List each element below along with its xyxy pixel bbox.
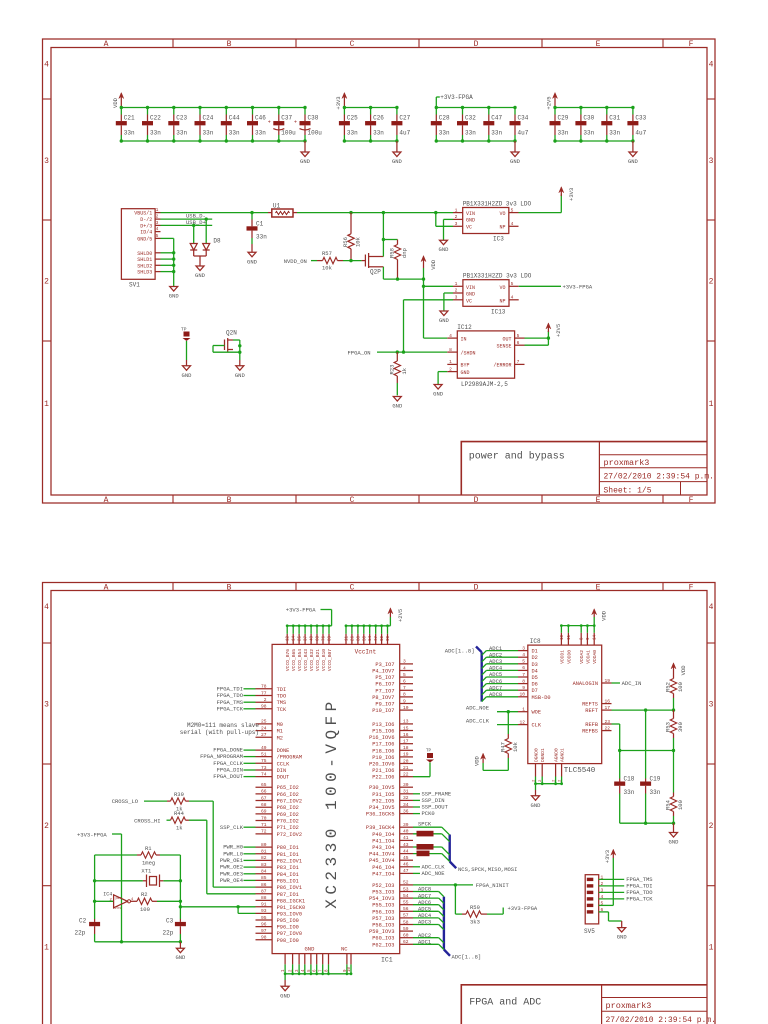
svg-text:ADC_NOE: ADC_NOE [466, 705, 490, 712]
svg-text:22: 22 [403, 772, 409, 778]
svg-text:66: 66 [261, 789, 267, 795]
wire CROSS_LO to R39 [144, 800, 167, 802]
svg-text:R52: R52 [665, 682, 672, 692]
wire CROSS_HI to R44 [167, 819, 171, 821]
svg-text:33n: 33n [624, 789, 635, 796]
svg-text:25: 25 [261, 719, 267, 725]
ground below SV5 [618, 928, 626, 933]
frame column ticks top [172, 583, 174, 591]
svg-text:D6: D6 [532, 682, 538, 688]
svg-text:P7_IO7: P7_IO7 [375, 688, 394, 694]
power symbol +2V5 for +2V5 bypass bank [546, 93, 558, 110]
IC8 right pins [573, 678, 612, 735]
svg-text:4: 4 [403, 665, 406, 671]
svg-text:33n: 33n [229, 130, 240, 137]
svg-text:68: 68 [261, 802, 267, 808]
svg-text:C44: C44 [229, 115, 240, 122]
svg-text:P4_IOV7: P4_IOV7 [372, 669, 394, 675]
junction at top of C26 [369, 106, 372, 109]
svg-text:P32_IO5: P32_IO5 [372, 798, 394, 804]
svg-text:17: 17 [605, 705, 611, 711]
wire R47 to VDD [483, 763, 508, 770]
svg-text:33n: 33n [176, 130, 187, 137]
inverter IC4 [93, 891, 137, 910]
wire SPCK to bus [413, 821, 450, 836]
svg-text:D7: D7 [532, 688, 538, 694]
capacitor C33 [627, 108, 646, 142]
svg-text:R59: R59 [470, 904, 480, 911]
svg-text:98: 98 [261, 935, 267, 941]
svg-text:ADC_IN: ADC_IN [622, 680, 642, 687]
svg-text:P65_IO2: P65_IO2 [277, 785, 299, 791]
svg-text:XT1: XT1 [141, 867, 152, 874]
svg-text:P53_IO3: P53_IO3 [372, 890, 394, 896]
svg-text:P70_IO2: P70_IO2 [277, 819, 299, 825]
frame row ticks [43, 642, 52, 644]
svg-text:P88_IGCK1: P88_IGCK1 [277, 898, 306, 904]
svg-text:P81_IO1: P81_IO1 [277, 852, 299, 858]
svg-text:C26: C26 [373, 115, 384, 122]
junction at bottom of C24 [198, 139, 201, 142]
svg-text:ADC_NOE: ADC_NOE [422, 870, 446, 877]
svg-text:27/02/2010 2:39:54 p.m.: 27/02/2010 2:39:54 p.m. [606, 1016, 716, 1024]
svg-text:1meg: 1meg [142, 859, 155, 866]
power symbol +3V3-FPGA for +3V3-FPGA bypass bank [436, 94, 473, 108]
svg-text:15: 15 [403, 725, 409, 731]
svg-text:ANALOGIN: ANALOGIN [573, 681, 598, 687]
svg-text:SHLD0: SHLD0 [137, 251, 152, 257]
junction at top of C25 [343, 106, 346, 109]
svg-text:GND: GND [300, 158, 311, 165]
ground below R23 [393, 397, 401, 402]
svg-text:33n: 33n [558, 130, 569, 137]
svg-text:GND: GND [510, 158, 521, 165]
svg-text:P96_IO0: P96_IO0 [277, 925, 299, 931]
power symbol VDD above IC8 [593, 612, 595, 617]
svg-text:C34: C34 [518, 115, 529, 122]
svg-text:VO: VO [499, 211, 505, 217]
capacitor C23 [168, 108, 187, 142]
IC3 pin stubs [453, 207, 519, 227]
svg-text:USB_D+: USB_D+ [186, 219, 206, 226]
svg-text:VCCO_B21: VCCO_B21 [315, 649, 321, 671]
svg-text:C24: C24 [203, 115, 214, 122]
svg-text:10: 10 [403, 705, 409, 711]
svg-text:30: 30 [403, 782, 409, 788]
svg-text:VDD: VDD [601, 610, 608, 621]
resistor R56 [342, 211, 362, 261]
svg-text:49: 49 [261, 745, 267, 751]
wires SV5 JTAG signals [599, 876, 654, 903]
svg-text:2: 2 [455, 214, 458, 220]
svg-text:NVDD_ON: NVDD_ON [284, 258, 307, 265]
svg-text:PB1X331H2ZD 3v3 LDO: PB1X331H2ZD 3v3 LDO [463, 200, 532, 207]
junction at top of C37 [277, 106, 280, 109]
junction at top of C24 [198, 106, 201, 109]
svg-text:B: B [227, 40, 232, 49]
svg-text:31: 31 [403, 789, 409, 795]
svg-text:P43_IO4: P43_IO4 [372, 845, 394, 851]
IC1 right pins [366, 659, 413, 949]
wire NCS to bus [413, 851, 450, 862]
svg-text:14: 14 [594, 634, 598, 640]
regulator IC12 [457, 324, 514, 388]
svg-text:D5: D5 [532, 675, 538, 681]
svg-text:AGND0: AGND0 [554, 748, 560, 762]
svg-text:98: 98 [261, 704, 267, 710]
svg-text:VIN: VIN [466, 211, 475, 217]
svg-text:TMS: TMS [277, 700, 287, 706]
svg-text:IC13: IC13 [491, 309, 506, 316]
svg-text:C46: C46 [255, 115, 266, 122]
svg-text:C1: C1 [256, 221, 264, 228]
wire IC13 VO to +3V3-FPGA label [519, 285, 561, 287]
svg-text:5: 5 [403, 672, 406, 678]
svg-text:P22_IO6: P22_IO6 [372, 775, 394, 781]
svg-text:P59_IOV3: P59_IOV3 [369, 929, 394, 935]
svg-text:E: E [596, 584, 601, 593]
label ADC_NOE at IC8 [466, 705, 518, 714]
svg-text:GND: GND [439, 317, 450, 324]
svg-text:48: 48 [311, 635, 315, 641]
svg-text:P60_IO3: P60_IO3 [372, 936, 394, 942]
svg-text:13: 13 [403, 719, 409, 725]
svg-text:GND: GND [439, 246, 450, 253]
svg-text:P19_IO6: P19_IO6 [372, 755, 394, 761]
svg-text:88: 88 [261, 895, 267, 901]
svg-text:VCCO_B76: VCCO_B76 [285, 649, 291, 671]
svg-text:VDDA0: VDDA0 [592, 650, 598, 664]
ground below Q2N [236, 366, 244, 371]
crystal XT1 [93, 867, 182, 887]
svg-text:VDDD0: VDDD0 [566, 650, 572, 664]
svg-text:R39: R39 [174, 791, 184, 798]
svg-text:serial (with pull-ups): serial (with pull-ups) [180, 729, 259, 736]
svg-text:FPGA_NINIT: FPGA_NINIT [476, 882, 510, 889]
svg-text:GND: GND [617, 934, 628, 941]
svg-text:P52_IO3: P52_IO3 [372, 883, 394, 889]
svg-text:OUT: OUT [502, 336, 511, 342]
svg-text:80: 80 [261, 842, 267, 848]
svg-text:1: 1 [44, 400, 49, 409]
capacitor C1 [247, 213, 268, 253]
IC1 left pins [256, 684, 306, 944]
junction at bottom of C26 [369, 139, 372, 142]
junction at bottom of C46 [251, 139, 254, 142]
svg-text:P97_IOV0: P97_IOV0 [277, 931, 302, 937]
svg-text:1: 1 [455, 281, 458, 287]
svg-text:VCCO_B43: VCCO_B43 [303, 649, 309, 671]
svg-text:9: 9 [403, 698, 406, 704]
junction at top of C29 [553, 106, 556, 109]
svg-text:+3V3: +3V3 [604, 850, 611, 863]
capacitor C47 [483, 108, 502, 142]
junction at top of C28 [435, 106, 438, 109]
svg-text:GND: GND [461, 370, 470, 376]
svg-text:3: 3 [156, 220, 159, 226]
svg-text:19: 19 [403, 752, 409, 758]
junction at bottom of C37 [277, 139, 280, 142]
IC1 top VCCO pins and +3V3-FPGA rail [285, 624, 333, 671]
junction at bottom of C29 [553, 139, 556, 142]
svg-text:R44: R44 [174, 810, 185, 817]
svg-text:ADC[1..8]: ADC[1..8] [445, 647, 475, 654]
svg-text:82: 82 [261, 855, 267, 861]
svg-text:GND: GND [392, 158, 403, 165]
svg-text:VBUS/1: VBUS/1 [134, 211, 152, 217]
junction at bottom of C32 [461, 139, 464, 142]
svg-text:C33: C33 [635, 115, 646, 122]
svg-text:P85_IO1: P85_IO1 [277, 878, 299, 884]
svg-text:33n: 33n [583, 130, 594, 137]
svg-text:NP: NP [499, 224, 505, 230]
svg-text:P10_IO7: P10_IO7 [372, 708, 394, 714]
wire bottom rail of +3V3 bypass bank [344, 140, 397, 142]
ground below IC12 [434, 385, 442, 390]
svg-text:F: F [689, 584, 694, 593]
note about FPGA slave serial mode [180, 722, 260, 736]
svg-text:33n: 33n [150, 130, 161, 137]
svg-text:ADC_CLK: ADC_CLK [466, 718, 490, 725]
svg-text:GND: GND [466, 292, 475, 298]
svg-text:D: D [474, 584, 479, 593]
svg-text:P41_IO4: P41_IO4 [372, 838, 394, 844]
svg-text:C3: C3 [166, 918, 174, 925]
wire IC3 GND pin to ground [444, 219, 454, 240]
svg-text:AGND1: AGND1 [560, 748, 566, 762]
label +3V3-FPGA at IC1 top [286, 607, 332, 626]
svg-text:P87_IO1: P87_IO1 [277, 892, 299, 898]
svg-text:10k: 10k [355, 236, 362, 247]
svg-text:P91_IGCK0: P91_IGCK0 [277, 905, 306, 911]
svg-text:C32: C32 [465, 115, 476, 122]
sheet 2 title block divider [601, 985, 603, 1024]
svg-text:8: 8 [449, 347, 452, 353]
svg-text:P46_IO4: P46_IO4 [372, 865, 394, 871]
wire R39 to IC1 P86 [189, 801, 256, 887]
svg-text:2: 2 [264, 697, 267, 703]
ground below +3V3-FPGA bypass bank [510, 141, 521, 165]
junction at bottom of C38 [303, 139, 306, 142]
wire R57 to Q2P gate [343, 260, 362, 262]
capacitor C29 [550, 108, 569, 142]
capacitor C21 [116, 108, 135, 142]
svg-text:R56: R56 [342, 237, 349, 247]
svg-text:DGND0: DGND0 [534, 748, 540, 762]
svg-text:GND: GND [182, 372, 193, 379]
svg-text:FPGA_TCK: FPGA_TCK [217, 705, 244, 712]
diode array D8 [190, 217, 221, 266]
junction at bottom of C28 [435, 139, 438, 142]
frame row ticks [43, 98, 52, 100]
svg-text:dnp: dnp [401, 248, 408, 258]
wire REFB node [612, 724, 676, 752]
svg-text:33n: 33n [373, 130, 384, 137]
capacitor C30 [575, 108, 594, 142]
svg-text:R2: R2 [141, 891, 148, 898]
svg-text:5: 5 [511, 281, 514, 287]
svg-text:1k: 1k [401, 367, 408, 374]
ground below IC3 [440, 240, 448, 245]
ground below VDD bypass bank [300, 141, 311, 165]
svg-text:33n: 33n [124, 130, 135, 137]
sheet 1 title block outline [461, 442, 707, 495]
svg-text:21: 21 [403, 765, 409, 771]
capacitor C37 [268, 108, 296, 142]
svg-text:73: 73 [261, 765, 267, 771]
svg-text:33n: 33n [256, 234, 267, 241]
junction at top of C27 [395, 106, 398, 109]
svg-text:6: 6 [522, 665, 525, 671]
svg-text:GND: GND [175, 954, 186, 961]
wire NVDD_ON to R57 [311, 260, 317, 262]
svg-text:M1: M1 [277, 729, 283, 735]
ADC IC8 body [528, 638, 602, 775]
wire bottom rail of +3V3-FPGA bypass bank [436, 140, 515, 142]
capacitor C22 [142, 108, 161, 142]
svg-text:33n: 33n [491, 130, 502, 137]
svg-text:C19: C19 [650, 775, 661, 782]
transistor Q2P [362, 253, 384, 276]
svg-text:77: 77 [261, 690, 267, 696]
svg-text:GND: GND [235, 372, 246, 379]
ground below ADC reference filter [670, 833, 678, 838]
svg-text:D2: D2 [532, 655, 538, 661]
svg-text:SV5: SV5 [584, 928, 595, 935]
svg-text:4: 4 [156, 226, 159, 232]
resistor R52 [665, 672, 685, 710]
IC1 left net labels and wires [200, 685, 255, 884]
capacitor C31 [601, 108, 620, 142]
regulator IC3 [463, 200, 532, 242]
svg-text:P80_IO1: P80_IO1 [277, 845, 299, 851]
svg-text:FPGA_TCK: FPGA_TCK [626, 896, 653, 903]
ground below IC1 [281, 986, 289, 991]
junction at bottom of C22 [146, 139, 149, 142]
wire R59 to +3V3-FPGA label [487, 905, 538, 914]
label ADC_CLK at IC8 [466, 718, 518, 725]
svg-text:55: 55 [403, 900, 409, 906]
svg-text:P95_IO0: P95_IO0 [277, 918, 299, 924]
wire R58 top connection [383, 239, 397, 241]
svg-text:10: 10 [519, 692, 525, 698]
svg-text:17: 17 [403, 739, 409, 745]
junction at top of C31 [605, 106, 608, 109]
svg-text:VccInt: VccInt [355, 649, 377, 656]
svg-text:1: 1 [522, 707, 525, 713]
svg-text:C: C [350, 40, 355, 49]
svg-text:+3V3-FPGA: +3V3-FPGA [77, 832, 107, 839]
frame column ticks bottom [172, 495, 174, 503]
svg-text:M2: M2 [277, 735, 283, 741]
svg-text:VIN: VIN [466, 285, 475, 291]
svg-text:Q2N: Q2N [226, 330, 237, 337]
svg-text:2: 2 [709, 822, 714, 831]
svg-text:93: 93 [261, 908, 267, 914]
svg-text:5: 5 [517, 333, 520, 339]
svg-text:12: 12 [287, 635, 291, 641]
svg-text:22p: 22p [75, 930, 86, 937]
svg-text:DOUT: DOUT [277, 775, 290, 781]
svg-text:P62_IO3: P62_IO3 [372, 942, 394, 948]
svg-text:P47_IO4: P47_IO4 [372, 871, 394, 877]
svg-text:DONE: DONE [277, 748, 290, 754]
svg-text:5: 5 [511, 207, 514, 213]
svg-text:8: 8 [522, 678, 525, 684]
svg-text:100u: 100u [281, 130, 296, 137]
svg-text:100u: 100u [308, 130, 323, 137]
svg-text:F: F [689, 496, 694, 505]
svg-text:DIN: DIN [277, 768, 287, 774]
svg-text:P54_IOV3: P54_IOV3 [369, 896, 394, 902]
svg-text:VCCO_B07: VCCO_B07 [327, 649, 333, 671]
svg-text:64: 64 [369, 635, 373, 641]
wire USB_D+ net [161, 224, 213, 226]
wire oscillator left rail [94, 855, 96, 919]
junction at top of C47 [487, 106, 490, 109]
svg-text:GND: GND [628, 158, 639, 165]
svg-text:3: 3 [709, 157, 714, 166]
sheet frame inner border [51, 48, 707, 496]
svg-text:P98_IO0: P98_IO0 [277, 938, 299, 944]
svg-text:power and bypass: power and bypass [469, 451, 565, 463]
svg-text:C29: C29 [558, 115, 569, 122]
svg-text:72: 72 [261, 829, 267, 835]
svg-text:96: 96 [261, 921, 267, 927]
svg-text:IN: IN [461, 336, 467, 342]
connector SV5 [584, 875, 604, 936]
svg-text:+3V3: +3V3 [568, 188, 575, 201]
svg-text:REFB: REFB [585, 722, 598, 728]
svg-text:38: 38 [357, 635, 361, 641]
svg-text:D: D [474, 40, 479, 49]
power symbol +2V5 at IC1 top [389, 611, 391, 617]
svg-text:1k: 1k [176, 824, 183, 831]
svg-text:2: 2 [449, 366, 452, 372]
svg-text:P93_IOV0: P93_IOV0 [277, 911, 302, 917]
svg-text:26: 26 [351, 635, 355, 641]
svg-text:B: B [227, 496, 232, 505]
svg-text:P39_IGCK4: P39_IGCK4 [366, 825, 395, 831]
svg-text:P68_IO2: P68_IO2 [277, 805, 299, 811]
sheet 2 title block row line [602, 997, 707, 999]
svg-text:VDD: VDD [680, 665, 687, 676]
svg-text:+3V3-FPGA: +3V3-FPGA [286, 607, 316, 614]
title block divider [598, 442, 600, 495]
svg-text:4u7: 4u7 [399, 130, 410, 137]
svg-text:GND/5: GND/5 [137, 236, 152, 242]
svg-text:77: 77 [375, 635, 379, 641]
svg-text:19: 19 [605, 678, 611, 684]
junction at bottom of C30 [579, 139, 582, 142]
wire R44 to IC1 P87 [189, 820, 256, 894]
svg-text:+: + [294, 120, 297, 126]
svg-text:P83_IO1: P83_IO1 [277, 865, 299, 871]
svg-text:TDO: TDO [277, 694, 287, 700]
capacitor C32 [457, 108, 476, 142]
svg-text:ADC8: ADC8 [489, 691, 502, 698]
svg-text:32: 32 [403, 795, 409, 801]
svg-text:REFTS: REFTS [582, 702, 598, 708]
svg-text:C30: C30 [583, 115, 594, 122]
junction at top of C23 [172, 106, 175, 109]
svg-text:PCK0: PCK0 [422, 810, 435, 817]
svg-text:XC2330 100-VQFP: XC2330 100-VQFP [323, 697, 341, 909]
junction at bottom of C27 [395, 139, 398, 142]
svg-text:P86_IOV1: P86_IOV1 [277, 885, 302, 891]
svg-text:A: A [104, 584, 109, 593]
resistor R53 [665, 710, 685, 750]
